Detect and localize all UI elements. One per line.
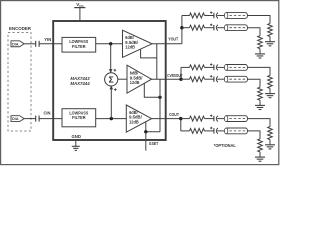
DAC U2a luma (D/A converter) (11, 41, 24, 47)
svg-text:D/A: D/A (12, 42, 19, 46)
capacitor V2 coupling (polarized) (210, 75, 212, 77)
wire C2 branch (181, 130, 190, 132)
node amp3 gain-set junction (144, 130, 147, 133)
wire CVBSOUT (152, 78, 182, 80)
svg-text:*OPTIONAL: *OPTIONAL (214, 143, 236, 148)
coax cable C1 (224, 116, 227, 122)
wire C1 branch (181, 118, 190, 120)
wire Y2 to termination (248, 28, 261, 36)
wire C1 to YIN pin (39, 43, 62, 45)
svg-text:GND: GND (72, 134, 81, 139)
capacitor C1 coupling (polarized) (210, 115, 212, 117)
ground C2 termination (255, 156, 265, 158)
wire VCC to chip (79, 8, 81, 21)
svg-text:CIN: CIN (44, 110, 51, 115)
svg-text:D/A: D/A (12, 117, 19, 121)
resistor Y2 termination 75ohm (258, 36, 263, 49)
wire C1 to termination (248, 119, 271, 127)
wire LP2 to amp3 (96, 118, 127, 120)
capacitor Y2 coupling (polarized) (210, 24, 212, 26)
lowpass filter block chroma (62, 109, 96, 127)
pin GSET stub (145, 132, 147, 151)
lowpass filter block luma (62, 37, 96, 52)
resistor Y1 series 75ohm (190, 13, 205, 18)
IC U1 MAX7443/MAX7444 outline (53, 21, 166, 140)
wire V2 branch (181, 78, 190, 80)
capacitor V1 coupling (polarized) (210, 64, 212, 66)
node COUT branch junction (179, 117, 182, 120)
op-amp A3 chroma gain amplifier (126, 105, 151, 132)
wire amp3 gain feedback loop (146, 122, 160, 132)
resistor V1 termination 75ohm (268, 75, 273, 88)
svg-text:CVBSOUT: CVBSOUT (167, 73, 183, 78)
wire DAC2 to C2 (24, 118, 36, 120)
resistor V2 series 75ohm (190, 77, 205, 82)
wire luma node to summer (arrow down) (110, 44, 112, 72)
coax cable V2 (224, 76, 227, 82)
wire V2 to termination (248, 79, 261, 87)
ground V1 termination (265, 93, 275, 95)
summer sigma (105, 73, 118, 86)
svg-text:FILTER: FILTER (72, 115, 86, 120)
ground Y2 termination (255, 53, 265, 55)
wire C2 to CIN pin (39, 118, 62, 120)
node CVBSOUT branch junction (179, 78, 182, 81)
resistor C2 series 75ohm (190, 128, 205, 133)
svg-text:YIN: YIN (44, 37, 51, 42)
frame border (1, 1, 279, 165)
capacitor C2 chroma input coupling (35, 116, 37, 122)
svg-text:YOUT: YOUT (168, 37, 178, 42)
coax cable C2 (224, 128, 227, 134)
wire V1 to termination (248, 67, 271, 75)
wire V1 branch (181, 66, 190, 68)
wire LP1 to amp1 (96, 43, 123, 45)
node luma junction (109, 42, 112, 45)
svg-text:12dB: 12dB (130, 80, 140, 85)
svg-text:MAX7444: MAX7444 (70, 81, 90, 86)
wire amp2 gain feedback loop (144, 83, 160, 97)
svg-text:12dB: 12dB (125, 45, 135, 50)
svg-text:Σ: Σ (109, 74, 114, 84)
op-amp A2 cvbs gain amplifier (127, 65, 152, 93)
resistor C1 termination 75ohm (268, 127, 273, 140)
ground chip GND (72, 145, 80, 147)
wire summer to amp2 (118, 78, 127, 80)
node chroma junction (110, 117, 113, 120)
DAC U2b chroma (D/A converter) (11, 116, 24, 122)
wire DAC1 to C1 (24, 43, 36, 45)
wire Y2 branch (182, 27, 190, 29)
op-amp A1 luma gain amplifier (123, 30, 153, 57)
resistor Y1 termination 75ohm (268, 24, 273, 37)
ground C1 termination (265, 144, 275, 146)
svg-text:COUT: COUT (169, 112, 179, 117)
svg-text:ENCODER: ENCODER (9, 26, 32, 31)
capacitor C2 coupling (polarized) (210, 127, 212, 129)
capacitor C1 luma input coupling (35, 41, 37, 47)
wire chroma node to summer (arrow up) (110, 86, 112, 118)
resistor V2 termination 75ohm (258, 87, 263, 100)
resistor Y2 series 75ohm (190, 25, 205, 30)
wire YOUT (152, 43, 182, 45)
wire Y1 to termination (248, 16, 271, 24)
svg-text:GSET: GSET (149, 141, 159, 146)
resistor V1 series 75ohm (190, 65, 205, 70)
capacitor Y1 coupling (polarized) (210, 12, 212, 14)
resistor C2 termination 75ohm (258, 139, 263, 152)
coax cable Y2 (224, 25, 227, 31)
wire Y1 branch (182, 15, 190, 17)
svg-text:12dB: 12dB (129, 119, 139, 124)
ground V2 termination (255, 104, 265, 106)
ground Y1 termination (265, 41, 275, 43)
wire C2 to termination (248, 131, 261, 139)
encoder dashed box (8, 33, 31, 132)
wire amp1 gain feedback loop (141, 49, 157, 58)
wire COUT (152, 118, 181, 120)
coax cable V1 (224, 65, 227, 71)
resistor C1 series 75ohm (190, 116, 205, 121)
svg-text:FILTER: FILTER (72, 44, 86, 49)
node YOUT branch junction (180, 26, 183, 29)
node amp2 gain-set junction (158, 96, 161, 99)
coax cable Y1 (224, 13, 227, 19)
